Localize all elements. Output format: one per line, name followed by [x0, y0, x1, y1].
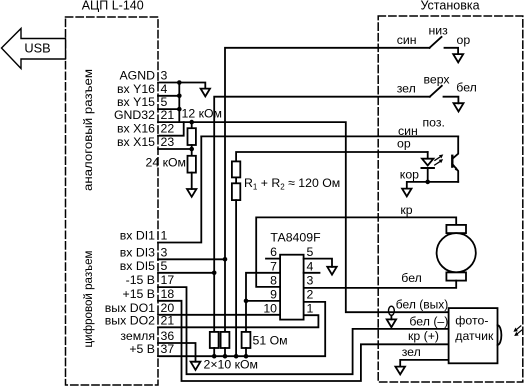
svg-text:аналоговый разъем: аналоговый разъем	[81, 69, 95, 191]
svg-text:фото-: фото-	[455, 313, 488, 327]
svg-text:5: 5	[307, 245, 314, 259]
svg-text:кор: кор	[400, 168, 419, 182]
svg-text:1: 1	[307, 301, 314, 315]
wire pin21 DO2 to IC pin1	[158, 315, 318, 327]
photo sensor lens	[498, 325, 502, 345]
phototransistor	[452, 136, 458, 182]
svg-text:-15 В: -15 В	[126, 273, 155, 287]
resistor 10 кОм pullup A	[210, 332, 219, 356]
svg-text:USB: USB	[24, 41, 50, 56]
junction bus AGND	[177, 80, 182, 85]
svg-text:вх DI3: вх DI3	[120, 245, 155, 259]
junction bus Y15	[177, 107, 182, 112]
light arrows optocoupler	[435, 154, 444, 165]
wire pin DI1 riser	[158, 136, 201, 242]
svg-text:5: 5	[161, 259, 168, 273]
ground IC pin5	[327, 267, 336, 275]
svg-text:3: 3	[161, 245, 168, 259]
wire node син optocoupler output	[201, 135, 458, 137]
wire pin20 DO1 to IC pin10	[158, 314, 280, 316]
wire кр IC pin8 to motor	[256, 217, 456, 287]
svg-text:кр: кр	[400, 203, 412, 217]
ground кор	[402, 189, 411, 197]
svg-text:вх DI1: вх DI1	[120, 229, 155, 243]
svg-text:+5 В: +5 В	[129, 342, 155, 356]
junction rail 51 Ом	[244, 354, 249, 359]
svg-text:низ: низ	[429, 24, 449, 38]
svg-text:1: 1	[161, 229, 168, 243]
junction DI3	[223, 257, 228, 262]
svg-text:2: 2	[307, 287, 314, 301]
svg-text:9: 9	[270, 287, 277, 301]
motor M	[437, 225, 476, 281]
junction rail R2	[234, 354, 239, 359]
wire switch верх contact	[444, 97, 459, 104]
junction bus Y16	[177, 94, 182, 99]
light arrows photo sensor	[513, 326, 521, 336]
LED optocoupler	[422, 152, 434, 182]
svg-text:8: 8	[270, 273, 277, 287]
svg-text:зел: зел	[402, 345, 421, 359]
svg-text:+15 В: +15 В	[123, 287, 155, 301]
svg-text:бел (вых): бел (вых)	[396, 298, 449, 312]
wire IC pin9	[246, 300, 280, 302]
wire pin DI3	[158, 258, 225, 260]
wire pin3 AGND to ground	[158, 83, 205, 89]
junction rail A	[212, 354, 217, 359]
svg-text:AGND: AGND	[119, 69, 155, 83]
svg-text:3: 3	[307, 273, 314, 287]
wire analog ground bus	[178, 83, 180, 123]
svg-text:4: 4	[161, 82, 168, 96]
resistor 12 кОм	[188, 122, 196, 145]
svg-text:АЦП L-140: АЦП L-140	[82, 0, 144, 12]
svg-text:вх Y15: вх Y15	[117, 95, 155, 109]
wire switch низ to DI3	[225, 48, 430, 332]
ground switch верх бел	[454, 103, 464, 111]
svg-text:верх: верх	[424, 72, 451, 86]
IC pin4 stub	[304, 272, 320, 274]
switch верх blade	[430, 86, 442, 97]
svg-text:37: 37	[161, 342, 175, 356]
wire ор LED feed	[236, 152, 428, 161]
svg-text:земля: земля	[120, 329, 155, 343]
ground земля	[191, 362, 201, 370]
svg-text:12 кОм: 12 кОм	[182, 107, 223, 121]
ground AGND	[201, 89, 210, 97]
svg-text:24 кОм: 24 кОм	[146, 156, 187, 170]
junction DI5	[212, 271, 217, 276]
junction divider X15	[189, 147, 194, 152]
wire IC pin7 to 51 Ом	[246, 273, 280, 332]
junction 12 кОм top	[189, 120, 194, 125]
wire pin37 +5В rail	[158, 302, 325, 356]
wire switch низ contact	[445, 48, 459, 54]
resistor 10 кОм pullup B	[221, 332, 230, 356]
svg-text:поз.: поз.	[423, 116, 445, 130]
frame Установка dashed box	[378, 16, 523, 382]
USB connector arrow	[2, 29, 66, 69]
svg-text:вх X15: вх X15	[117, 135, 155, 149]
resistor R1	[232, 161, 240, 177]
svg-text:бел (–): бел (–)	[409, 314, 448, 328]
svg-text:вх X16: вх X16	[117, 122, 155, 136]
svg-text:датчик: датчик	[455, 329, 494, 343]
switch низ blade	[430, 37, 442, 48]
svg-text:6: 6	[270, 245, 277, 259]
svg-text:вых DO2: вых DO2	[105, 313, 155, 327]
svg-text:4: 4	[307, 259, 314, 273]
svg-text:бел: бел	[401, 271, 422, 285]
wire зел	[400, 360, 448, 367]
wire pin4 вх Y16	[158, 95, 179, 97]
svg-text:кр (+): кр (+)	[408, 329, 439, 343]
wire pin21 GND32 node бел(вых)	[158, 122, 449, 312]
wire pin23 вх X15	[158, 148, 192, 150]
wire pin17 -15В to бел(-)	[158, 287, 449, 374]
svg-text:GND32: GND32	[114, 108, 155, 122]
wire switch верх to DI5	[214, 97, 430, 332]
junction LED cathode	[425, 180, 430, 185]
op-amp driver IC ТА8409F body	[280, 255, 304, 320]
svg-text:3: 3	[161, 69, 168, 83]
wire R2 to +5В rail	[235, 200, 237, 356]
svg-text:син: син	[397, 33, 417, 47]
resistor 51 Ом	[242, 332, 251, 356]
svg-text:36: 36	[161, 329, 175, 343]
svg-text:зел: зел	[397, 81, 416, 95]
svg-text:7: 7	[270, 259, 277, 273]
svg-text:21: 21	[161, 313, 175, 327]
svg-text:21: 21	[161, 108, 175, 122]
resistor R2	[232, 177, 240, 200]
svg-text:10: 10	[263, 301, 277, 315]
IC pin6 stub	[266, 258, 280, 260]
terminal бел(вых)	[389, 306, 395, 315]
junction rail B	[223, 354, 228, 359]
wire IC pin5 to ground	[304, 259, 332, 267]
svg-text:ор: ор	[397, 137, 411, 151]
wire pin DI5	[158, 272, 214, 274]
ground зел	[395, 367, 405, 375]
svg-text:Установка: Установка	[420, 0, 479, 12]
svg-text:51 Ом: 51 Ом	[253, 334, 288, 348]
svg-text:вх DI5: вх DI5	[120, 259, 155, 273]
ground divider	[187, 189, 196, 197]
svg-text:17: 17	[161, 273, 175, 287]
junction IC pin7 pin9	[244, 299, 249, 304]
ground бел(вых) arrow	[387, 315, 396, 327]
svg-text:цифровой разъем: цифровой разъем	[81, 251, 95, 348]
wire pin22 вх X16	[158, 122, 184, 136]
wire кор	[407, 182, 458, 189]
ground switch низ ор	[453, 54, 463, 62]
svg-text:R1 + R2 ≈ 120 Ом: R1 + R2 ≈ 120 Ом	[244, 176, 340, 192]
svg-text:ор: ор	[457, 33, 471, 47]
svg-text:23: 23	[161, 135, 175, 149]
svg-text:ТА8409F: ТА8409F	[270, 231, 321, 245]
photo sensor box	[449, 308, 498, 363]
svg-text:22: 22	[161, 122, 175, 136]
svg-text:вх Y16: вх Y16	[117, 82, 155, 96]
svg-text:5: 5	[161, 95, 168, 109]
wire бел motor to IC pin3	[304, 281, 457, 288]
svg-text:2×10 кОм: 2×10 кОм	[204, 357, 259, 371]
svg-text:бел: бел	[456, 80, 477, 94]
svg-text:18: 18	[161, 287, 175, 301]
wire pin5 вх Y15	[158, 108, 179, 110]
frame АЦП L-140 dashed box	[66, 17, 159, 385]
wire pin36 земля	[158, 343, 196, 362]
wire pin18 +15В to кр(+)	[158, 301, 449, 381]
resistor 24 кОм	[188, 145, 196, 189]
